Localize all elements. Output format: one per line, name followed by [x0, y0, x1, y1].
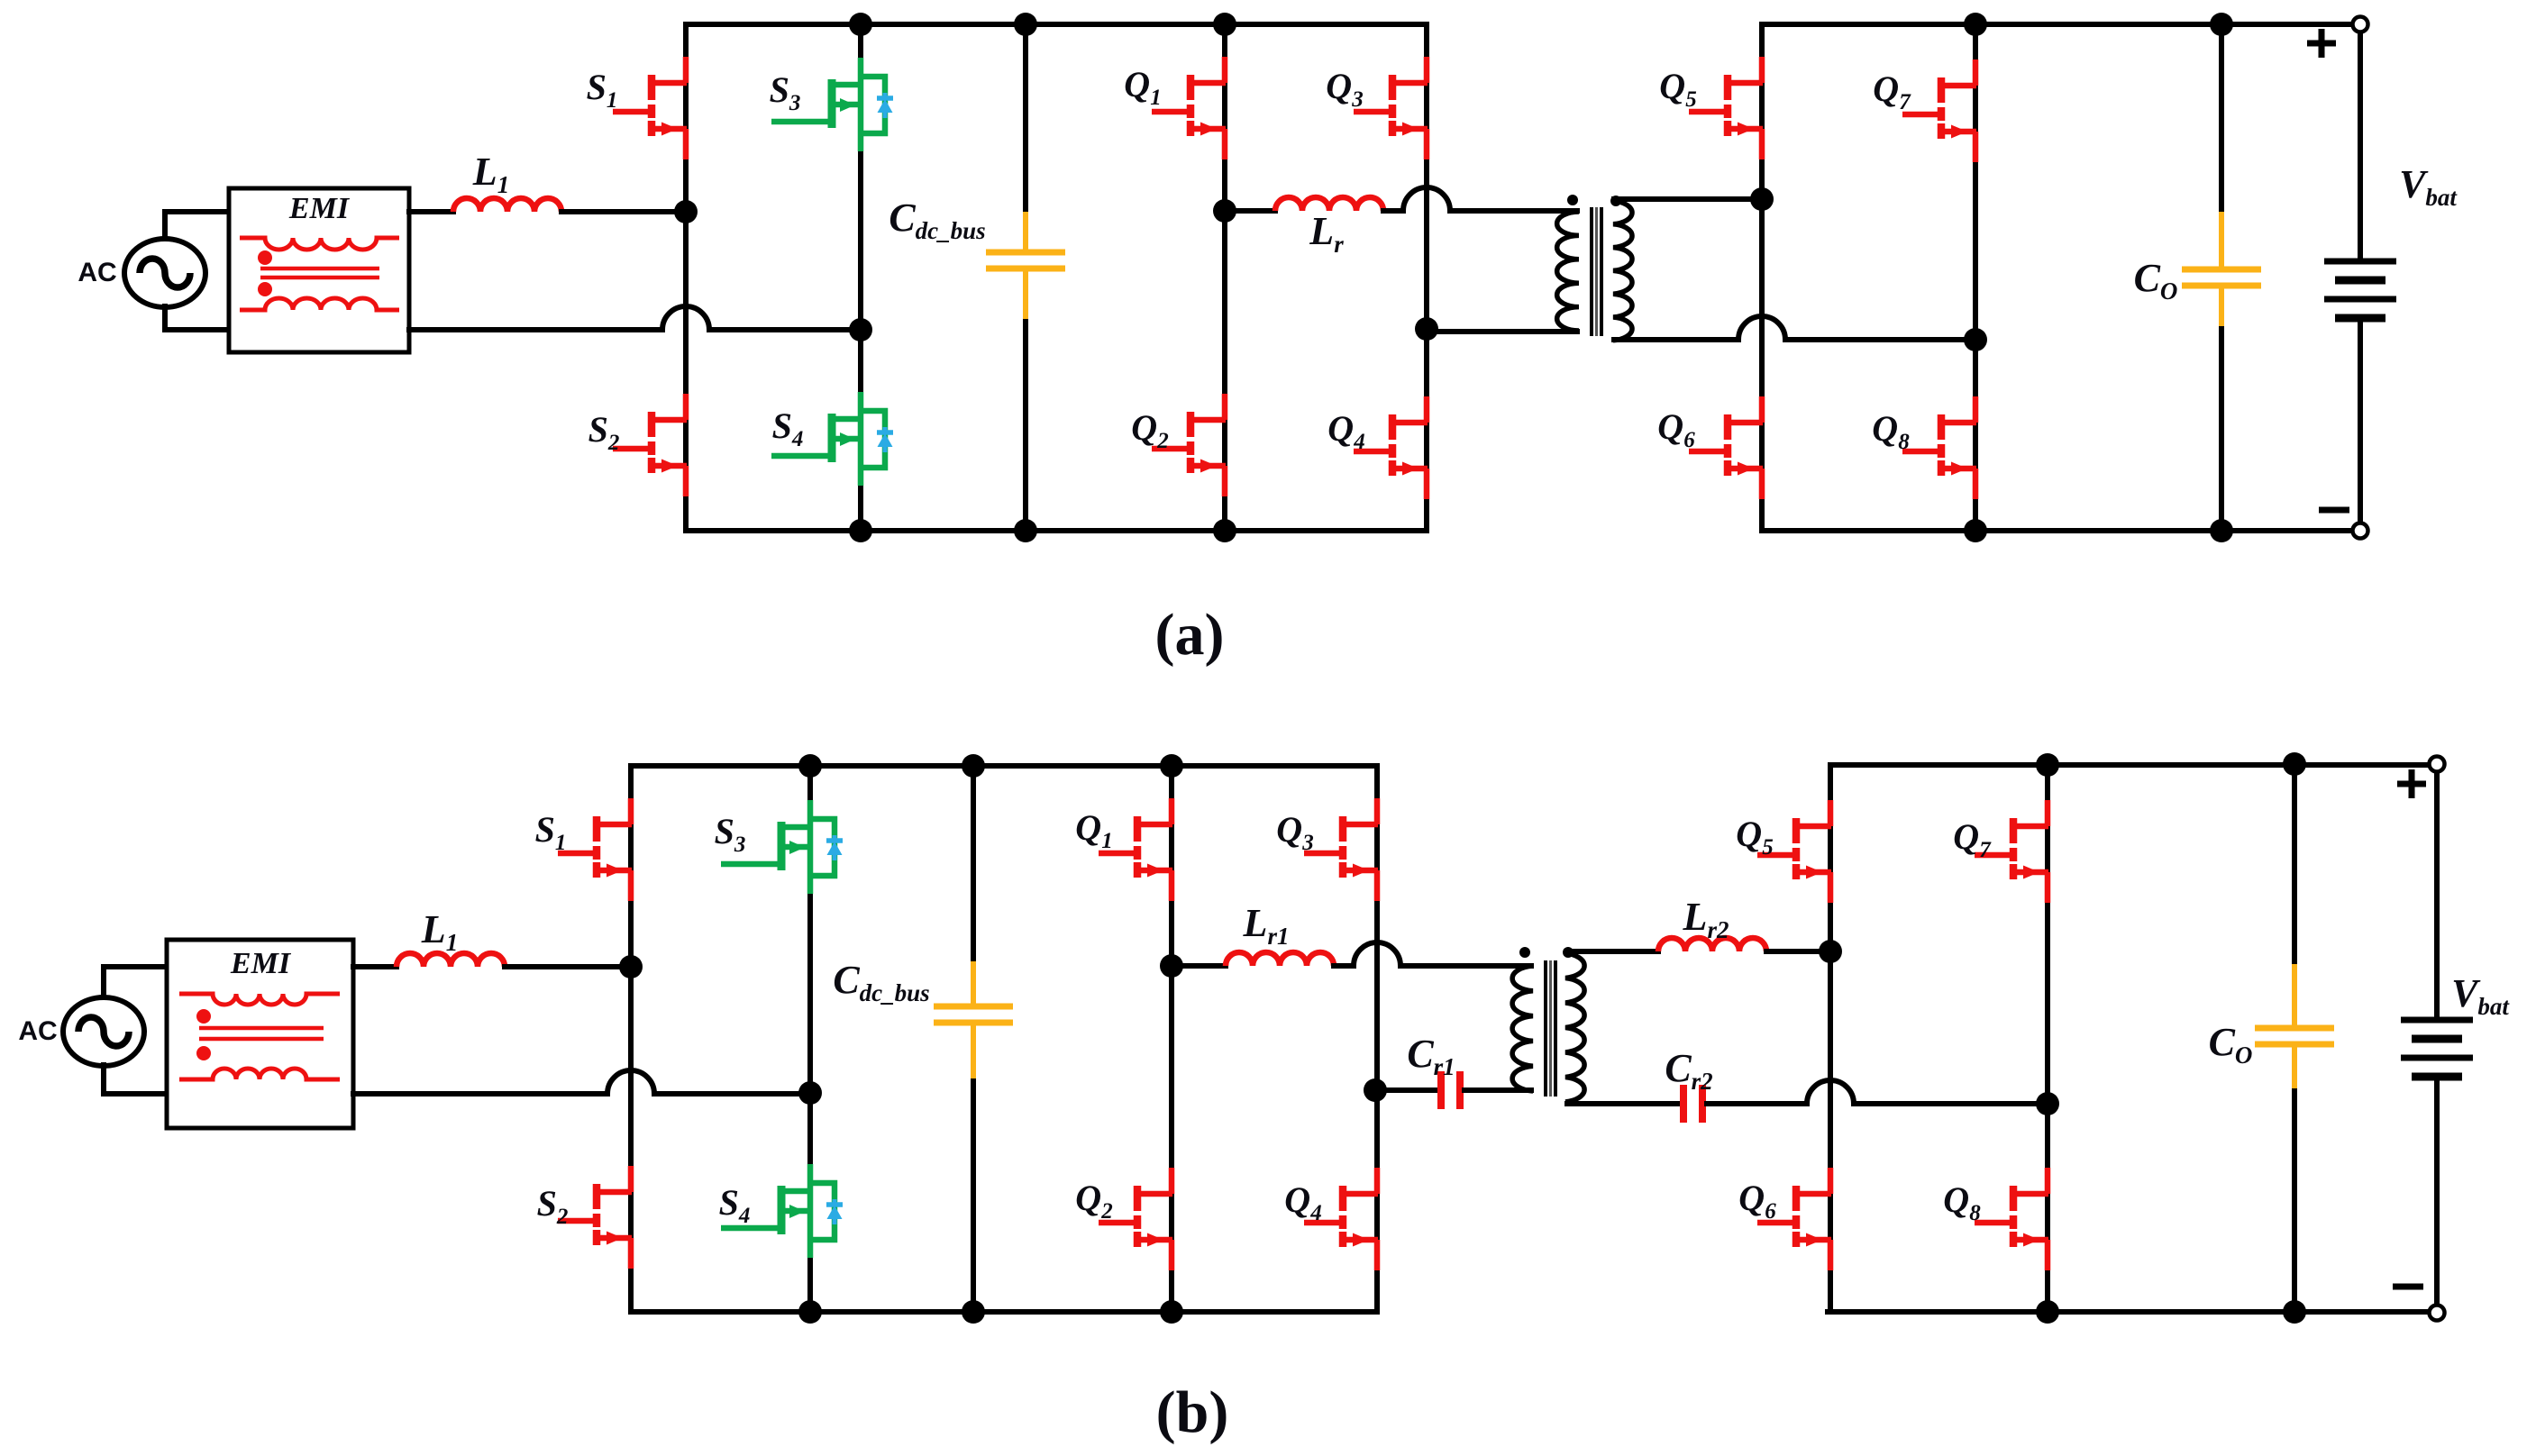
- EMI filter polarity dot upper (b): [196, 1009, 211, 1024]
- wire top rail of PFC bridge (b): [631, 763, 1377, 769]
- transistor S2 (b): [558, 1166, 632, 1269]
- wire Q3/Q4 midpoint to transformer primary bottom (a): [1427, 329, 1577, 334]
- wire leg Co upper (b): [2292, 764, 2297, 966]
- node bottom rail / Q8 leg (a): [1964, 519, 1987, 542]
- wire Cr1 to transformer primary bottom (b): [1464, 1087, 1531, 1093]
- node S1/S2 midpoint (b): [619, 955, 643, 978]
- transistor S1 (b): [558, 798, 632, 901]
- node Q5/Q6 midpoint (a): [1750, 187, 1774, 211]
- transformer T1 primary winding (b): [1512, 966, 1533, 1091]
- wire leg S1-S2 (a): [683, 24, 689, 531]
- svg-text:AC: AC: [78, 258, 116, 287]
- transformer T1 secondary polarity dot (a): [1610, 196, 1621, 206]
- node top rail / Q1 leg (a): [1213, 13, 1236, 36]
- wire AC to EMI top (b): [104, 967, 169, 997]
- wire EMI bottom to S3/S4 midpoint with hop (b): [353, 1070, 810, 1094]
- transistor Q3 (a): [1354, 57, 1428, 159]
- node top rail / Cdc leg (b): [962, 754, 985, 778]
- transistor Q1 (a): [1152, 57, 1226, 159]
- wire Q1/Q2 midpoint to Lr1 (b): [1172, 963, 1226, 969]
- wire transformer secondary bottom to Cr2 (b): [1567, 1101, 1679, 1106]
- minus sign (b): [2393, 1284, 2423, 1290]
- EMI filter core lines (a): [260, 268, 379, 278]
- transistor Q2 (a): [1152, 394, 1226, 496]
- wire Lr to transformer primary top with hop (a): [1383, 187, 1577, 211]
- node bottom rail / Q2 leg (b): [1160, 1300, 1183, 1324]
- wire EMI to L1 (a): [409, 209, 453, 214]
- transformer T1 primary polarity dot (b): [1519, 947, 1530, 958]
- transistor Q5 (a): [1689, 57, 1763, 159]
- transistor S3 (b): [721, 800, 843, 894]
- wire leg Q5-Q6 (a): [1759, 24, 1765, 531]
- wire transformer secondary top to Q5/Q6 midpoint (a): [1614, 196, 1762, 202]
- wire battery lead lower (a): [2358, 322, 2363, 523]
- transistor Q2 (b): [1099, 1168, 1172, 1270]
- wire L1 to node A (a): [561, 209, 686, 214]
- transistor Q7 (b): [1975, 800, 2048, 903]
- node bottom rail / Cdc leg (b): [962, 1300, 985, 1324]
- node top rail / Q7 leg (a): [1964, 13, 1987, 36]
- EMI filter polarity dot lower (b): [196, 1046, 211, 1060]
- node Q3/Q4 midpoint (b): [1364, 1078, 1387, 1102]
- node S3/S4 midpoint (b): [798, 1081, 822, 1105]
- transistor Q6 (a): [1689, 396, 1763, 499]
- wire transformer secondary bottom to Q7/Q8 midpoint with hop (a): [1614, 316, 1975, 340]
- transistor Q3 (b): [1304, 798, 1378, 901]
- wire Lr2 to Q5/Q6 midpoint (b): [1766, 949, 1830, 954]
- wire leg Q3-Q4 (a): [1424, 24, 1429, 531]
- wire leg Q7-Q8 (b): [2045, 765, 2050, 1312]
- node bottom rail / Co leg (b): [2283, 1300, 2306, 1324]
- wire leg Cdc_bus upper (b): [971, 766, 976, 963]
- wire leg Q5-Q6 (b): [1828, 765, 1833, 1312]
- wire leg Q3-Q4 (b): [1374, 766, 1380, 1312]
- transformer T1 core (a): [1592, 207, 1601, 336]
- transformer T1 primary polarity dot (a): [1567, 195, 1578, 205]
- EMI filter box (b): [167, 940, 353, 1128]
- svg-text:EMI: EMI: [288, 192, 351, 225]
- wire top rail of PFC bridge (a): [686, 22, 1427, 27]
- node top rail / S3 leg (b): [798, 754, 822, 778]
- transformer T1 core (b): [1546, 960, 1555, 1097]
- inductor L1 (a): [453, 198, 561, 212]
- wire bottom rail of PFC bridge (b): [631, 1309, 1377, 1315]
- transformer T1 secondary polarity dot (b): [1563, 947, 1574, 958]
- EMI filter core lines (b): [199, 1028, 324, 1039]
- EMI filter polarity dot upper (a): [258, 250, 272, 265]
- terminal negative (b): [2430, 1306, 2445, 1321]
- transistor S4 (b): [721, 1164, 843, 1258]
- transformer T1 secondary winding (a): [1613, 201, 1632, 341]
- transistor Q4 (a): [1354, 396, 1428, 499]
- wire bottom rail of output bridge (b): [1828, 1309, 2430, 1315]
- inductor Lr1 (b): [1226, 952, 1334, 966]
- terminal positive (a): [2353, 17, 2368, 32]
- node bottom rail / Cdc leg (a): [1014, 519, 1037, 542]
- EMI filter winding bottom (b): [179, 1069, 340, 1079]
- wire Q1/Q2 midpoint to Lr (a): [1225, 208, 1275, 214]
- wire Lr1 to transformer primary top with hop (b): [1334, 942, 1531, 966]
- wire EMI to L1 (b): [353, 964, 397, 969]
- node bottom rail / Q2 leg (a): [1213, 519, 1236, 542]
- node top rail / Cdc leg (a): [1014, 13, 1037, 36]
- node S3/S4 midpoint (a): [849, 318, 872, 341]
- transistor Q1 (b): [1099, 798, 1172, 901]
- AC source V1 (a): [124, 239, 205, 307]
- node bottom rail / S4 leg (b): [798, 1300, 822, 1324]
- node Q7/Q8 midpoint (b): [2036, 1092, 2059, 1115]
- transistor S4 (a): [771, 392, 893, 486]
- transistor Q5 (b): [1757, 800, 1831, 903]
- wire leg Q1-Q2 (b): [1169, 766, 1174, 1312]
- transistor Q8 (a): [1902, 396, 1976, 499]
- transistor Q7 (a): [1902, 59, 1976, 162]
- AC source V1 (b): [63, 997, 144, 1066]
- EMI filter winding top (a): [240, 238, 399, 250]
- wire leg Q1-Q2 (a): [1222, 24, 1227, 531]
- terminal positive (b): [2430, 757, 2445, 772]
- node top rail / Q1 leg (b): [1160, 754, 1183, 778]
- transistor S3 (a): [771, 58, 893, 151]
- wire EMI bottom to S3/S4 midpoint with hop (a): [409, 306, 861, 330]
- node top rail / Co leg (a): [2210, 13, 2233, 36]
- node bottom rail / Co leg (a): [2210, 519, 2233, 542]
- node top rail / Co leg (b): [2283, 752, 2306, 776]
- wire leg Cdc_bus lower (b): [971, 1077, 976, 1312]
- wire leg S1-S2 (b): [628, 766, 634, 1312]
- EMI filter winding bottom (a): [240, 298, 399, 310]
- node Q5/Q6 midpoint (b): [1819, 940, 1842, 963]
- capacitor Cdc_bus (a): [986, 212, 1065, 319]
- inductor L1 (b): [397, 953, 505, 967]
- EMI filter winding top (b): [179, 994, 340, 1005]
- wire leg S3-S4 (a): [858, 24, 863, 531]
- wire battery lead upper (b): [2434, 772, 2440, 1016]
- battery Vbat (b): [2401, 1020, 2473, 1077]
- wire leg Co lower (b): [2292, 1087, 2297, 1312]
- capacitor Cr1 (b): [1441, 1071, 1460, 1109]
- transistor S2 (a): [613, 394, 687, 496]
- transformer T1 secondary winding (b): [1565, 953, 1584, 1102]
- wire top rail of output bridge (a): [1762, 22, 2352, 27]
- wire battery lead lower (b): [2434, 1080, 2440, 1305]
- wire leg Co upper (a): [2219, 24, 2224, 212]
- transistor S1 (a): [613, 57, 687, 159]
- plus sign (a): [2307, 29, 2336, 58]
- wire AC to EMI top (a): [165, 212, 231, 239]
- svg-text:AC: AC: [18, 1016, 57, 1046]
- capacitor Cdc_bus (b): [934, 961, 1013, 1078]
- svg-text:EMI: EMI: [230, 947, 292, 980]
- wire bottom rail of PFC bridge (a): [686, 528, 1427, 533]
- svg-text:(a): (a): [1155, 602, 1225, 668]
- node bottom rail / S4 leg (a): [849, 519, 872, 542]
- inductor Lr2 (b): [1658, 938, 1766, 951]
- capacitor Co (b): [2255, 964, 2334, 1088]
- transistor Q4 (b): [1304, 1168, 1378, 1270]
- wire leg S3-S4 (b): [807, 766, 813, 1312]
- transformer T1 primary winding (a): [1557, 212, 1579, 331]
- wire transformer secondary top to Lr2 (b): [1566, 949, 1658, 954]
- terminal negative (a): [2353, 523, 2368, 539]
- node Q1/Q2 midpoint (b): [1160, 954, 1183, 978]
- node top rail / S3 leg (a): [849, 13, 872, 36]
- battery Vbat (a): [2324, 261, 2396, 318]
- node top rail / Q7 leg (b): [2036, 753, 2059, 777]
- transistor Q8 (b): [1975, 1168, 2048, 1270]
- wire leg Co lower (a): [2219, 326, 2224, 531]
- wire Cr2 to Q7/Q8 midpoint with hop (b): [1707, 1080, 2048, 1104]
- wire top rail of output bridge (b): [1830, 762, 2430, 768]
- wire bottom rail of output bridge (a): [1762, 528, 2352, 533]
- wire battery lead upper (a): [2358, 32, 2363, 258]
- wire leg Cdc_bus lower (a): [1023, 317, 1028, 531]
- svg-text:(b): (b): [1156, 1379, 1229, 1445]
- plus sign (b): [2397, 769, 2426, 798]
- wire leg Q7-Q8 (a): [1973, 24, 1978, 531]
- capacitor Co (a): [2182, 212, 2261, 326]
- wire Q3/Q4 midpoint to Cr1 (b): [1377, 1087, 1437, 1093]
- node bottom rail / Q8 leg (b): [2036, 1300, 2059, 1324]
- wire leg Cdc_bus upper (a): [1023, 24, 1028, 214]
- minus sign (a): [2319, 507, 2349, 514]
- node Q7/Q8 midpoint (a): [1964, 328, 1987, 351]
- inductor Lr (a): [1275, 197, 1383, 211]
- node Q3/Q4 midpoint (a): [1415, 317, 1438, 341]
- node Q1/Q2 midpoint (a): [1213, 199, 1236, 223]
- EMI filter polarity dot lower (a): [258, 282, 272, 296]
- node S1/S2 midpoint (a): [674, 200, 698, 223]
- EMI filter box (a): [229, 188, 409, 352]
- wire L1 to node (b): [505, 964, 631, 969]
- capacitor Cr2 (b): [1683, 1085, 1702, 1123]
- wire AC to EMI bottom (a): [165, 306, 231, 330]
- transistor Q6 (b): [1757, 1168, 1831, 1270]
- wire AC to EMI bottom (b): [104, 1065, 169, 1094]
